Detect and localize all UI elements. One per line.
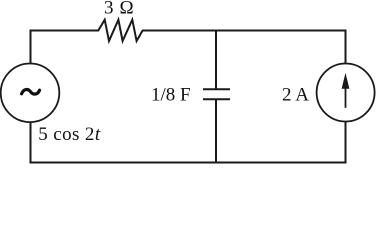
- svg-text:1/8 F: 1/8 F: [151, 85, 191, 106]
- svg-text:3: 3: [104, 0, 114, 19]
- svg-text:2 A: 2 A: [282, 85, 309, 106]
- svg-text:Ω: Ω: [120, 0, 134, 19]
- svg-text:5 cos 2t: 5 cos 2t: [38, 124, 101, 145]
